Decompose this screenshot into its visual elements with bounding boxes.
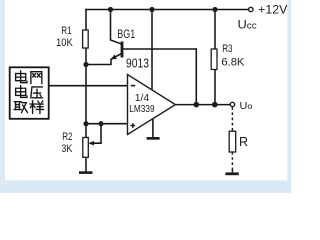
svg-text:R: R — [239, 135, 248, 149]
svg-text:3K: 3K — [61, 143, 73, 155]
svg-text:LM339: LM339 — [129, 103, 154, 115]
svg-text:R2: R2 — [62, 131, 72, 143]
svg-text:Ucc: Ucc — [238, 17, 257, 31]
svg-text:Uo: Uo — [240, 100, 253, 112]
svg-text:10K: 10K — [56, 37, 73, 49]
svg-text:BG1: BG1 — [117, 27, 135, 41]
svg-text:R1: R1 — [61, 25, 71, 37]
svg-text:6.8K: 6.8K — [221, 56, 245, 68]
svg-text:R3: R3 — [222, 43, 232, 55]
svg-text:+12V: +12V — [258, 3, 287, 17]
svg-text:9013: 9013 — [126, 57, 149, 71]
